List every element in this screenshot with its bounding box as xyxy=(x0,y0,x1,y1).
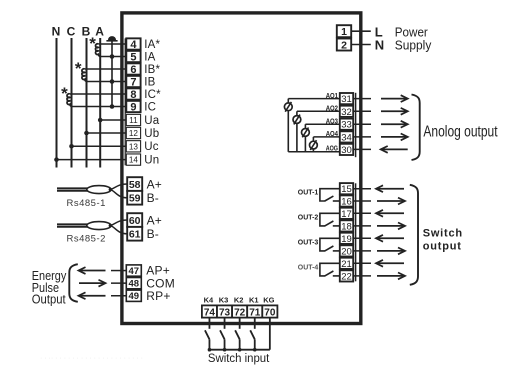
output circle AO2 xyxy=(293,116,301,124)
wire stub terminal 47 xyxy=(111,270,126,272)
terminal 59 xyxy=(127,191,142,205)
cable shield oval Rs485-1 xyxy=(87,186,111,194)
arrow AP+ (out) xyxy=(80,270,106,272)
arrow analog 31 xyxy=(381,98,406,100)
cable shield oval Rs485-2 xyxy=(87,222,111,230)
svg-text:49: 49 xyxy=(129,291,140,302)
terminal 20 xyxy=(340,245,353,256)
phase line A xyxy=(99,38,101,168)
terminal 5 xyxy=(126,51,140,62)
svg-text:output: output xyxy=(423,240,462,252)
wire stub terminal 73 xyxy=(224,318,226,329)
switch K2 lower wire xyxy=(239,339,241,349)
wire to B- terminal xyxy=(110,190,127,198)
wire to A+ terminal xyxy=(110,184,127,190)
svg-text:72: 72 xyxy=(234,307,246,318)
svg-text:6: 6 xyxy=(130,64,136,76)
wire AO1 lower xyxy=(287,111,289,152)
wire stub terminal 71 xyxy=(254,318,256,329)
svg-text:61: 61 xyxy=(129,229,141,241)
switch K3 blade xyxy=(220,330,225,339)
svg-text:IC*: IC* xyxy=(144,89,161,101)
switch K1 blade xyxy=(250,330,255,339)
junction dot switch K1 xyxy=(253,348,257,352)
wire AO3 lower xyxy=(304,136,306,152)
phase line B xyxy=(86,38,88,168)
svg-text:13: 13 xyxy=(129,142,139,151)
output circle AO4 xyxy=(310,141,318,149)
svg-text:OUT-3: OUT-3 xyxy=(298,239,319,246)
svg-text:1: 1 xyxy=(341,26,347,38)
twisted pair cable Rs485-2 xyxy=(57,223,90,225)
wire to A+ terminal xyxy=(110,220,127,226)
wire IC* (CT C top to terminal 8) xyxy=(70,93,127,95)
wire stub terminal 72 xyxy=(239,318,241,329)
terminal 61 xyxy=(127,227,142,241)
svg-text:IA: IA xyxy=(144,51,155,63)
terminal 33 xyxy=(340,119,353,130)
svg-text:RP+: RP+ xyxy=(146,289,170,303)
terminal 49 xyxy=(126,290,141,301)
arrow analog 33 xyxy=(381,123,406,125)
terminal strip edge line (analog) xyxy=(355,93,357,157)
svg-text:K1: K1 xyxy=(249,295,259,304)
svg-text:*: * xyxy=(61,84,68,103)
svg-text:A+: A+ xyxy=(147,213,162,227)
arrow switch 17 xyxy=(378,212,405,214)
relay contact OUT-1 xyxy=(320,189,340,201)
svg-text:· · ·· · · · · · · · · · · · ·: · · ·· · · · · · · · · · · · · · · · · ·… xyxy=(40,355,143,362)
svg-text:20: 20 xyxy=(341,246,352,257)
CT common line with earth-dome symbol xyxy=(111,41,113,107)
relay contact OUT-2 xyxy=(320,213,340,226)
svg-text:A+: A+ xyxy=(147,177,162,191)
CT B (current transformer on phase B) xyxy=(82,69,87,82)
junction dot C/Uc xyxy=(69,144,74,149)
wire stub terminal 17 xyxy=(353,212,371,214)
terminal 22 xyxy=(340,270,353,281)
svg-text:14: 14 xyxy=(129,156,139,165)
switch K4 blade xyxy=(205,330,210,339)
wire stub terminal 1 xyxy=(351,30,371,32)
arrow switch 20 xyxy=(377,250,404,252)
wire AO2 lower xyxy=(296,123,298,151)
terminal 30 xyxy=(340,144,353,155)
svg-text:Anolog output: Anolog output xyxy=(423,124,498,141)
arrow analog 32 xyxy=(381,110,406,112)
svg-text:58: 58 xyxy=(129,179,141,191)
junction dot B/Ub xyxy=(84,131,89,136)
wire stub terminal 74 xyxy=(208,318,210,329)
phase line N xyxy=(56,38,58,168)
svg-text:OUT-4: OUT-4 xyxy=(298,264,319,271)
terminal strip edge line (switch) xyxy=(355,183,357,281)
terminal 74 xyxy=(202,305,217,317)
junction dot common/IB xyxy=(110,79,115,84)
svg-text:9: 9 xyxy=(130,101,136,113)
wire stub terminal 31 xyxy=(353,98,371,100)
junction dot switch K3 xyxy=(223,348,227,352)
output circle AO3 xyxy=(302,129,310,137)
wire stub terminal 48 xyxy=(111,282,126,284)
CT A (current transformer on phase A) xyxy=(96,44,101,57)
arrow analog 30 (in) xyxy=(382,148,408,150)
svg-text:*: * xyxy=(89,34,96,53)
wire stub terminal 20 xyxy=(353,250,371,252)
terminal 34 xyxy=(340,131,353,142)
wire stub terminal 70 xyxy=(269,318,271,350)
junction dot cable split xyxy=(109,188,112,191)
wire stub terminal 16 xyxy=(353,200,371,202)
junction dot switch K4 xyxy=(208,348,212,352)
junction dot N/Un xyxy=(54,157,59,162)
wire AO4 lower xyxy=(312,149,314,152)
junction dot common/IC xyxy=(110,104,115,109)
wire AO3 xyxy=(305,123,339,125)
svg-text:Output: Output xyxy=(32,291,66,306)
wire stub terminal 49 xyxy=(111,295,126,297)
wire AO2 xyxy=(297,110,340,112)
svg-text:Switch: Switch xyxy=(423,228,463,240)
switch K4 lower wire xyxy=(208,339,210,349)
terminal 73 xyxy=(217,305,232,317)
svg-text:*: * xyxy=(75,59,82,78)
output circle AO1 xyxy=(284,103,292,111)
terminal 12 xyxy=(126,127,140,138)
svg-text:74: 74 xyxy=(204,307,216,318)
wire stub terminal 21 xyxy=(353,262,371,264)
svg-text:73: 73 xyxy=(219,307,231,318)
brace energy pulse xyxy=(69,264,78,302)
svg-text:IA*: IA* xyxy=(144,39,160,51)
phase line C xyxy=(71,38,73,168)
arrow switch 19 xyxy=(378,237,405,239)
svg-text:4: 4 xyxy=(130,39,137,51)
terminal 4 xyxy=(126,38,140,49)
svg-text:Power: Power xyxy=(395,25,428,39)
svg-text:2: 2 xyxy=(341,39,347,51)
junction dot cable split xyxy=(109,224,112,227)
svg-text:IC: IC xyxy=(144,101,156,113)
switch K3 lower wire xyxy=(224,339,226,349)
svg-text:C: C xyxy=(67,24,76,38)
svg-text:N: N xyxy=(52,24,61,38)
svg-text:8: 8 xyxy=(130,89,136,101)
arrow analog 34 xyxy=(381,136,406,138)
wire stub terminal 22 xyxy=(353,275,371,277)
terminal 71 xyxy=(247,305,262,317)
wire IB (CT B bottom to terminal 7) xyxy=(87,81,126,83)
svg-text:47: 47 xyxy=(129,266,140,277)
svg-text:Rs485-1: Rs485-1 xyxy=(67,198,106,209)
terminal 21 xyxy=(340,258,353,269)
terminal 70 xyxy=(262,305,277,317)
svg-text:17: 17 xyxy=(341,209,352,220)
terminal 13 xyxy=(126,141,140,152)
terminal 8 xyxy=(126,88,140,99)
wire stub terminal 15 xyxy=(353,188,371,190)
terminal 9 xyxy=(126,101,140,112)
terminal 47 xyxy=(126,265,141,276)
arrow switch 16 xyxy=(377,200,404,202)
CT C (current transformer on phase C) xyxy=(67,94,72,107)
wire stub terminal 32 xyxy=(353,110,371,112)
arrow switch 18 xyxy=(377,225,404,227)
terminal 72 xyxy=(232,305,247,317)
svg-text:AO4: AO4 xyxy=(326,129,339,138)
svg-text:B-: B- xyxy=(147,191,159,205)
svg-text:K3: K3 xyxy=(219,295,229,304)
wire Un (phase N to terminal 14) xyxy=(57,159,127,161)
svg-text:Un: Un xyxy=(144,155,159,167)
wire stub terminal 33 xyxy=(353,123,371,125)
svg-text:K2: K2 xyxy=(234,295,244,304)
wire IC (CT C bottom to terminal 9) xyxy=(72,106,126,108)
terminal 18 xyxy=(340,220,353,231)
svg-text:31: 31 xyxy=(341,94,352,105)
terminal 60 xyxy=(127,213,142,227)
svg-text:B-: B- xyxy=(147,227,159,241)
relay contact OUT-4 xyxy=(320,263,340,276)
terminal 58 xyxy=(127,177,142,191)
terminal strip edge line (left) xyxy=(124,38,126,165)
svg-text:59: 59 xyxy=(129,193,141,205)
terminal 14 xyxy=(126,154,140,165)
wire AO1 xyxy=(288,98,340,100)
wire Ua (phase A to terminal 11) xyxy=(100,119,126,121)
svg-text:71: 71 xyxy=(249,307,261,318)
wire stub terminal 30 xyxy=(353,148,371,150)
wire IB* (CT B top to terminal 6) xyxy=(85,68,127,70)
svg-text:33: 33 xyxy=(341,120,352,131)
svg-text:11: 11 xyxy=(129,116,138,125)
switch K2 blade xyxy=(235,330,240,339)
arrow COM (in) xyxy=(79,282,104,284)
wire stub terminal 34 xyxy=(353,136,371,138)
svg-text:34: 34 xyxy=(341,132,352,143)
svg-text:AO3: AO3 xyxy=(326,116,338,125)
terminal 17 xyxy=(340,208,353,219)
svg-text:Rs485-2: Rs485-2 xyxy=(67,234,106,245)
svg-text:12: 12 xyxy=(129,129,139,138)
wire AO4 xyxy=(313,136,339,138)
svg-text:AOG: AOG xyxy=(326,144,338,153)
svg-text:N: N xyxy=(375,38,384,53)
relay contact OUT-3 xyxy=(320,238,340,251)
svg-text:32: 32 xyxy=(341,107,352,118)
terminal 11 xyxy=(126,114,140,125)
wire Ub (phase B to terminal 12) xyxy=(87,132,127,134)
svg-text:Switch input: Switch input xyxy=(208,353,270,365)
terminal 15 xyxy=(340,183,353,194)
terminal 6 xyxy=(126,63,140,74)
terminal 31 xyxy=(340,93,353,104)
svg-text:30: 30 xyxy=(341,145,352,156)
svg-text:KG: KG xyxy=(263,295,274,304)
main device box outline xyxy=(122,13,361,324)
brace analog output xyxy=(412,95,420,161)
svg-text:AO1: AO1 xyxy=(326,91,338,100)
terminal 32 xyxy=(340,106,353,117)
svg-text:5: 5 xyxy=(130,51,136,63)
svg-text:16: 16 xyxy=(341,197,352,208)
svg-text:18: 18 xyxy=(341,221,352,232)
arrow switch 22 xyxy=(377,275,404,277)
arrow RP+ (out) xyxy=(80,295,106,297)
wire IA (CT A bottom to terminal 5) xyxy=(101,56,127,58)
svg-text:19: 19 xyxy=(341,234,352,245)
svg-text:OUT-2: OUT-2 xyxy=(298,214,319,221)
svg-text:15: 15 xyxy=(341,184,352,195)
twisted pair cable Rs485-1 xyxy=(57,187,90,189)
svg-text:Ua: Ua xyxy=(144,115,160,127)
junction dot A/Ua xyxy=(98,118,103,123)
wire IA* (CT A top to terminal 4) xyxy=(98,43,126,45)
wire Uc (phase C to terminal 13) xyxy=(72,145,127,147)
terminal 16 xyxy=(340,195,353,206)
svg-text:Uc: Uc xyxy=(144,141,159,153)
svg-text:60: 60 xyxy=(129,215,141,227)
junction dot switch K2 xyxy=(238,348,242,352)
arrow switch 15 xyxy=(378,188,405,190)
svg-text:IB*: IB* xyxy=(144,64,160,76)
svg-text:AO2: AO2 xyxy=(326,104,338,113)
svg-text:K4: K4 xyxy=(204,295,214,304)
terminal 2 xyxy=(337,39,351,51)
svg-text:22: 22 xyxy=(341,271,352,282)
svg-text:Ub: Ub xyxy=(144,128,159,140)
svg-text:A: A xyxy=(95,24,104,38)
wire stub terminal 18 xyxy=(353,225,371,227)
junction dot common/IA xyxy=(110,54,115,59)
svg-text:70: 70 xyxy=(264,307,276,318)
svg-text:IB: IB xyxy=(144,76,155,88)
terminal 1 xyxy=(337,25,351,37)
terminal 48 xyxy=(126,278,141,289)
arrow switch 21 xyxy=(378,262,405,264)
svg-text:Supply: Supply xyxy=(395,39,432,53)
wire stub terminal 19 xyxy=(353,237,371,239)
switch K1 lower wire xyxy=(254,339,256,349)
svg-text:OUT-1: OUT-1 xyxy=(298,190,319,197)
svg-text:21: 21 xyxy=(341,259,352,270)
wire stub terminal 2 xyxy=(351,44,371,46)
terminal 7 xyxy=(126,76,140,87)
svg-text:48: 48 xyxy=(129,279,140,290)
wire to B- terminal xyxy=(110,226,127,234)
svg-text:7: 7 xyxy=(130,76,136,88)
switch input common rail xyxy=(208,349,270,351)
brace switch output xyxy=(410,185,418,285)
terminal 19 xyxy=(340,233,353,244)
wire AOG common rail xyxy=(288,151,340,153)
